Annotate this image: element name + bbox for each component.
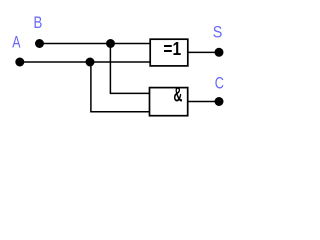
wire AND output to C [188,101,219,103]
svg-text:B: B [34,14,43,33]
svg-text:=1: =1 [163,39,181,60]
junction on B wire [106,39,115,48]
AND gate U2 (&) [150,82,188,116]
wire AND input 2 [90,111,150,113]
svg-text:A: A [12,34,20,52]
wire A branch vertical [90,62,92,112]
output terminal C dot [215,97,224,106]
wire A horizontal [20,61,150,63]
input terminal B [35,39,44,48]
wire XOR output to S [188,51,219,53]
svg-text:S: S [213,24,223,42]
output terminal S dot [215,48,224,57]
svg-text:C: C [215,75,224,93]
svg-text:&: & [173,82,182,106]
junction on A wire [86,58,95,67]
wire B horizontal [40,43,151,45]
input terminal A [15,58,24,67]
wire AND input 1 [110,92,150,94]
XOR gate U1 (=1) [150,39,188,66]
wire B branch vertical [109,44,111,94]
